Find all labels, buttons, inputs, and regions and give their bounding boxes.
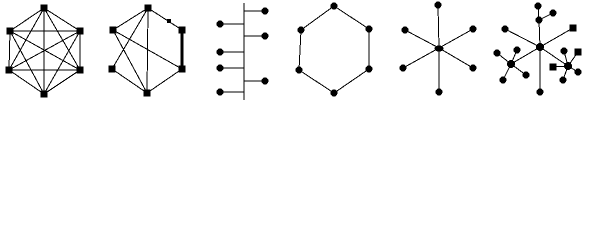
graph6 edge S1-a — [538, 6, 539, 20]
graph1 vertex UL — [7, 28, 14, 35]
graph6 vertex leaf Ra — [561, 48, 568, 55]
graph6 vertex leaf UR — [570, 25, 577, 32]
graph6 vertex leaf La — [494, 50, 501, 57]
graph2 edge T-LL — [112, 8, 148, 69]
graph3 leaf vertex 1 — [262, 8, 269, 15]
graph6 vertex leaf Lb — [514, 47, 521, 54]
graph2 vertex B — [144, 90, 151, 97]
graph3 leaf vertex 5 — [217, 65, 224, 72]
graph 4: cycle C6 hexagon — [296, 3, 373, 97]
graph6 edge C-L — [511, 47, 540, 64]
graph2 vertex T — [145, 5, 152, 12]
graph 1: complete graph K6 — [6, 5, 84, 98]
graph3 tooth edge 7 — [220, 91, 244, 93]
graph4 vertex LL — [296, 67, 303, 74]
graph5 spoke C-UL — [405, 30, 439, 48]
graph6 vertex leaf Rb — [575, 49, 582, 56]
graph2 edge UL-B — [113, 30, 147, 93]
graph6 edge C-R — [540, 47, 568, 66]
graph6 edge S1-b — [539, 13, 553, 20]
graph3 tooth edge 3 — [244, 35, 265, 37]
graph6 vertex leaf UL — [502, 26, 509, 33]
graph6 edge C-B — [539, 47, 541, 92]
graph1 edge UL-B — [10, 31, 44, 94]
graph5 leaf B — [436, 89, 443, 96]
graph6 vertex leaf S1b — [550, 10, 557, 17]
graph6 vertex leaf Ld — [523, 72, 530, 79]
graph2 edge T-UR — [148, 8, 182, 30]
graph6 vertex leaf Re — [575, 69, 582, 76]
graph1 edge UL-LR — [10, 31, 80, 70]
graph6 vertex leaf S1a — [535, 3, 542, 10]
graph2 vertex LR — [179, 66, 186, 73]
graph4 edge UL-T — [301, 6, 334, 30]
graph 2: 6-vertex graph with 9 edges — [109, 5, 186, 97]
graph2 edge T-B — [147, 8, 148, 93]
graph6 edge C-S1 — [539, 20, 540, 47]
graph6 edge L-c — [503, 64, 511, 80]
graph3 leaf vertex 4 — [217, 49, 224, 56]
graph4 edge UR-LR — [368, 29, 370, 69]
graph2 edge UR-LR — [181, 30, 184, 69]
graph3 leaf vertex 3 — [262, 33, 269, 40]
graph1 edge T-LL — [9, 8, 44, 70]
graph1 vertex LL — [6, 67, 13, 74]
graph1 edge LL-B — [9, 70, 44, 94]
graph6 edge L-a — [497, 53, 511, 64]
graph1 edge UR-B — [44, 31, 80, 94]
graph2 edge T-UL — [113, 8, 148, 30]
graph6 vertex leaf B — [537, 89, 544, 96]
graph1 edge UR-LL — [9, 31, 80, 70]
graph5 center vertex — [435, 45, 444, 51]
graph4 vertex UR — [366, 26, 373, 33]
graph2 vertex UR — [179, 27, 186, 34]
graph6 edge L-b — [511, 50, 517, 64]
graph6 vertex leaf Rd — [560, 77, 567, 84]
graph1 vertex LR — [77, 67, 84, 74]
graph6 edge R-e — [568, 66, 578, 72]
graph6 edge L-d — [511, 64, 526, 75]
graph 3: caterpillar tree (comb) — [217, 3, 269, 100]
graph4 edge T-UR — [334, 6, 369, 29]
graph6 edge R-b — [568, 52, 578, 66]
graph 6: two-level star tree — [494, 3, 582, 96]
graph1 vertex UR — [77, 28, 84, 35]
graph6 edge R-d — [563, 66, 568, 80]
graph6 vertex center C — [536, 43, 544, 51]
graph3 tooth edge 1 — [244, 10, 265, 12]
graph3 tooth edge 6 — [244, 80, 265, 82]
graph6 vertex satellite L — [507, 60, 515, 68]
graph4 vertex T — [331, 3, 338, 10]
graph3 tooth edge 4 — [220, 51, 244, 53]
graph4 edge B-LL — [299, 70, 334, 93]
graph1 edge LL-LR — [9, 69, 80, 71]
graph5 spoke C-T — [438, 5, 439, 48]
graph3 leaf vertex 6 — [262, 78, 269, 85]
graph1 edge UR-LR — [79, 31, 81, 70]
graph6 vertex leaf Lc — [500, 77, 507, 84]
graph1 edge UL-UR — [10, 30, 80, 32]
graph6 vertex leaf Rc — [550, 64, 557, 71]
graph5 leaf LL — [400, 65, 407, 72]
graph3 leaf vertex 2 — [217, 21, 224, 28]
graph2 edge LL-B — [112, 69, 147, 93]
graph4 vertex UL — [298, 27, 305, 34]
graph6 vertex satellite R — [564, 62, 572, 70]
graph1 edge LR-B — [44, 70, 80, 94]
graph5 spoke C-B — [438, 48, 440, 92]
graph1 edge UL-LL — [9, 31, 10, 70]
graph 5: star K1,6 — [400, 2, 477, 96]
graph1 vertex T — [41, 5, 48, 12]
graph1 edge T-LR — [44, 8, 80, 70]
graph4 vertex LR — [366, 66, 373, 73]
graph4 edge LL-UL — [299, 30, 301, 70]
graph4 edge LR-B — [334, 69, 369, 93]
graph3 tooth edge 2 — [220, 23, 244, 25]
graph6 edge R-c — [553, 66, 568, 67]
graph2 bend point on edge T-UR — [167, 19, 171, 23]
graph2 edge UL-LR — [113, 30, 182, 69]
graph5 leaf LR — [470, 65, 477, 72]
graph6 edge C-UL — [505, 29, 540, 47]
graph6 vertex satellite S1 — [536, 17, 543, 24]
graph5 spoke C-UR — [439, 29, 473, 48]
graph3 leaf vertex 7 — [217, 89, 224, 96]
graph5 leaf UR — [470, 26, 477, 33]
graph5 spoke C-LL — [403, 48, 439, 68]
graph4 vertex B — [331, 90, 338, 97]
graph5 leaf T — [435, 2, 442, 9]
graph3 tooth edge 5 — [220, 67, 244, 69]
graph2 edge LR-B — [147, 69, 182, 93]
graph6 edge R-a — [564, 51, 568, 66]
graph6 edge C-UR — [540, 28, 573, 47]
graph1 edge T-UL — [10, 8, 44, 31]
graph1 edge T-UR — [44, 8, 80, 31]
graph1 edge T-B — [43, 8, 45, 94]
graph5 spoke C-LR — [439, 48, 473, 68]
graph5 leaf UL — [402, 27, 409, 34]
graph1 vertex B — [41, 91, 48, 98]
graph3 spine — [243, 3, 245, 100]
graph2 vertex UL — [110, 27, 117, 34]
graph2 vertex LL — [109, 66, 116, 73]
